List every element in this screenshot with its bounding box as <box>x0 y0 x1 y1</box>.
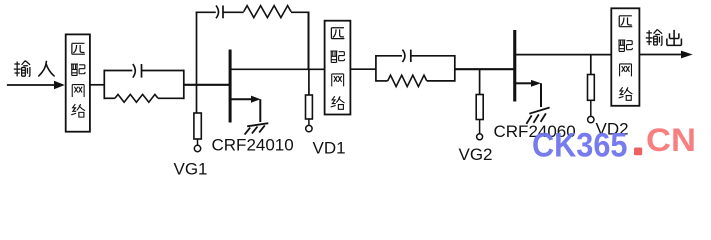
wire: gate bias lead down to RG2 <box>479 69 481 94</box>
wire: Q1 drain to M2 <box>230 68 325 70</box>
wire: drain node down to RD1 <box>308 69 310 95</box>
matching network box M2 匹配网络 <box>325 21 351 115</box>
wire: RG1 to VG1 terminal <box>197 139 199 145</box>
svg-text:VG2: VG2 <box>459 145 493 164</box>
resistor RG1 (to VG1) <box>194 113 201 139</box>
wire: C2 to R2 <box>223 11 244 13</box>
matching network box M1 匹配网络 <box>66 34 90 131</box>
node: interstage parallel RC loop (C3 top, R3 bottom) <box>376 55 455 82</box>
svg-text:CRF24010: CRF24010 <box>212 136 294 155</box>
svg-text:VD1: VD1 <box>313 139 346 158</box>
wire: output line with arrow <box>639 51 692 59</box>
wire: drain node down to RD2 <box>590 55 592 75</box>
wire: RG2 to VG2 terminal <box>479 120 481 134</box>
matching network box M3 匹配网络 <box>611 8 639 106</box>
ground G1 (hatched) <box>245 123 269 134</box>
wire: gate lead of Q2 <box>455 68 514 70</box>
capacitor C3 <box>402 50 410 62</box>
resistor R1 zigzag <box>104 94 184 102</box>
wire: gate bias vertical to VG1 / feedback left <box>196 12 198 113</box>
wire: source down lead <box>259 99 261 122</box>
capacitor C1 <box>133 64 142 78</box>
svg-text:VG1: VG1 <box>174 160 208 177</box>
wire: input line with arrow into M1 <box>7 81 65 89</box>
svg-text:CN: CN <box>646 122 696 158</box>
svg-text:CK365: CK365 <box>532 127 628 165</box>
wire: R2 to feedback right corner <box>291 11 309 13</box>
transistor Q2 channel bar <box>513 30 516 102</box>
terminal VG2 circle <box>477 134 483 140</box>
node: input label 输入 <box>14 61 54 77</box>
wire: RD2 to VD2 terminal <box>590 100 592 116</box>
wire: feedback right vertical down to drain node <box>308 12 310 70</box>
resistor R3 zigzag <box>376 75 455 86</box>
wire: gate lead of Q1 <box>184 84 229 86</box>
wire: Q2 source with arrow <box>516 80 541 87</box>
transistor Q1 channel bar <box>229 50 232 123</box>
resistor RG2 (to VG2) <box>476 95 483 120</box>
wire: RD1 to VD1 terminal <box>308 119 310 125</box>
node: input parallel RC loop (C1 top, R1 bottom) <box>104 70 184 100</box>
node: output label 输出 <box>646 29 682 45</box>
feedback top wire left <box>196 11 216 13</box>
wire: source down lead <box>540 83 542 107</box>
terminal VG1 circle <box>194 145 200 151</box>
terminal VD1 circle <box>306 125 312 131</box>
resistor RD1 (to VD1) <box>306 95 313 119</box>
capacitor C2 (feedback) <box>216 6 223 19</box>
terminal VD2 circle <box>588 116 594 122</box>
wire: M1 to input RC loop <box>90 84 104 86</box>
wire: Q2 drain to M3 <box>515 54 611 56</box>
resistor R2 zigzag (feedback) <box>244 6 291 18</box>
wire: M2 to interstage RC loop <box>350 68 376 70</box>
ground G2 (hatched) <box>526 108 549 124</box>
watermark CK365.CN <box>532 122 696 165</box>
wire: Q1 source with arrow <box>231 96 261 103</box>
resistor RD2 (to VD2) <box>588 75 595 101</box>
